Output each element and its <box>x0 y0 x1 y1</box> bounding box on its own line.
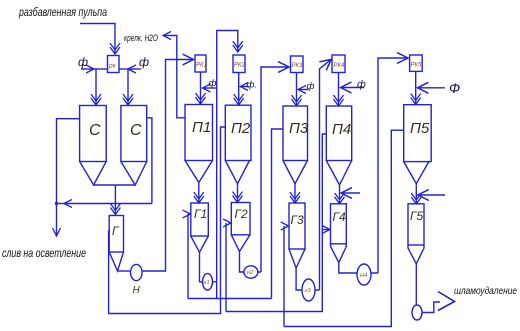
funnel under P3 <box>283 161 308 184</box>
wire: phi inlet at P5 drop <box>418 87 445 89</box>
svg-text:Г5: Г5 <box>410 209 424 223</box>
svg-text:ф: ф <box>357 79 366 91</box>
funnel under G1 <box>191 236 209 252</box>
wire: pump N1 output riser and bridge to RK2 <box>213 31 238 299</box>
thickener G <box>109 216 123 253</box>
pump N2 <box>244 266 258 278</box>
wire: P5 underflow to G5 <box>415 184 417 203</box>
wire: side inlet stub at P5 underflow <box>418 194 445 196</box>
hydrocyclone G5 <box>408 204 424 245</box>
svg-text:П5: П5 <box>410 120 430 137</box>
svg-text:Г4: Г4 <box>333 210 347 224</box>
funnel under P4 <box>326 161 351 186</box>
funnel under G3 <box>289 249 305 268</box>
pump N4 <box>357 264 371 285</box>
wire: G3 side inlet arrow <box>287 225 289 227</box>
svg-text:слив на осветление: слив на осветление <box>2 246 86 260</box>
wire: diluted pulp inlet lead to RK <box>80 24 115 54</box>
hydrocyclone G2 <box>231 203 250 235</box>
hydrocyclone G3 <box>289 203 305 249</box>
wire: G1 side inlet arrow <box>188 213 191 215</box>
wire: feed line right into RK with arrow <box>128 68 141 70</box>
svg-text:н2: н2 <box>247 270 253 276</box>
apparatus P5 <box>404 105 432 162</box>
svg-text:РК3: РК3 <box>292 63 304 69</box>
svg-text:Н4: Н4 <box>360 273 367 279</box>
apparatus P2 <box>225 105 251 160</box>
svg-text:Ф: Ф <box>449 80 460 96</box>
wire: G2 feed leg <box>225 223 227 312</box>
funnel under P2 <box>225 161 249 184</box>
wire: feed line left into RK with arrow <box>81 68 94 70</box>
apparatus P4 <box>326 106 351 161</box>
node: junction dot at drain corner <box>55 202 58 205</box>
wire: P3 underflow to G3 <box>294 184 296 202</box>
svg-text:н1: н1 <box>204 280 210 286</box>
pump N <box>131 264 143 280</box>
svg-text:С: С <box>130 122 142 139</box>
wire: phi inlet at P1 drop <box>203 87 217 89</box>
svg-text:Г3: Г3 <box>291 213 305 227</box>
wire: G1 underflow to pump N1 <box>200 252 203 281</box>
svg-text:С: С <box>89 122 101 139</box>
pump N1 <box>203 274 213 290</box>
svg-text:ф: ф <box>307 81 315 92</box>
wire: RK3 drop to P3 <box>296 73 298 106</box>
funnel under G5 <box>408 245 424 264</box>
tank C1 <box>80 106 107 162</box>
funnel under G2 <box>231 235 250 252</box>
regulator RK5 <box>410 55 423 71</box>
wire: G1 feed leg <box>187 214 189 299</box>
wire: pump N3 output riser and diagonal to RK4 <box>315 59 331 290</box>
wire: G2 underflow to pump N2 <box>240 252 244 273</box>
svg-text:ф: ф <box>139 55 149 69</box>
svg-text:Н: Н <box>133 285 141 296</box>
wire: side inlet stub at P4 underflow <box>341 192 360 194</box>
wire: P1 overflow up and out to strong water <box>171 36 185 118</box>
svg-text:РК1: РК1 <box>196 63 207 69</box>
wire: G5 underflow to sludge pump <box>415 264 417 305</box>
wire: RK2 drop to P2 <box>238 73 240 105</box>
regulator RK4 <box>332 55 345 73</box>
wire: P2 underflow to G2 <box>237 184 239 202</box>
svg-text:РК2: РК2 <box>234 63 246 69</box>
wire: bottom line L4 to P5 step <box>284 130 404 326</box>
pump sludge <box>412 305 422 320</box>
wire: G side line down to bottom then up to P2 inlet <box>109 127 226 314</box>
wire: sludge removal outlet arrow <box>422 302 440 313</box>
svg-text:разбавленная пульпа: разбавленная пульпа <box>18 7 107 19</box>
wire: G4 underflow to pump N4 <box>339 263 357 274</box>
wire: phi inlet at P4 drop <box>341 87 365 89</box>
svg-text:П1: П1 <box>192 119 211 136</box>
wire: funnel tips connector <box>94 184 136 186</box>
regulator RK3 <box>291 56 304 73</box>
wire: pump N4 output riser to RK5 <box>371 58 408 273</box>
wire: RK4 drop to P4 <box>338 73 340 106</box>
wire: P3 overflow step down to L1 <box>272 129 284 299</box>
funnel under P1 <box>185 161 213 183</box>
regulator RK1 <box>195 55 206 72</box>
wire: pump N2 output riser to RK3 <box>258 67 289 272</box>
wire: G underflow to pump N <box>118 270 131 272</box>
wire: RK1 drop to P1 <box>200 72 202 103</box>
wire: C underflow drop to G <box>114 185 116 214</box>
svg-text:П2: П2 <box>231 120 251 137</box>
funnel under C1 <box>80 162 107 186</box>
svg-text:рк: рк <box>108 63 117 70</box>
wire: G3 feed leg <box>283 226 285 327</box>
wire: G3 underflow to pump N3 <box>296 268 302 290</box>
wire: P4 underflow to G4 <box>339 185 341 203</box>
funnel under C2 <box>121 162 147 186</box>
svg-text:шламоудаление: шламоудаление <box>454 285 517 297</box>
svg-text:Г1: Г1 <box>194 207 207 221</box>
wire: pump N output riser to RK1 <box>142 60 193 272</box>
hydrocyclone G1 <box>191 203 209 236</box>
wire: RK5 drop to P5 <box>415 71 417 103</box>
wire: phi inlet at P3 drop <box>298 89 309 91</box>
svg-text:Г2: Г2 <box>235 207 249 221</box>
wire: drop to tank C right <box>127 69 129 104</box>
wire: overflow collector with left arrow <box>64 203 152 205</box>
apparatus P3 <box>283 106 308 161</box>
svg-text:РК4: РК4 <box>334 63 346 69</box>
wire: G2 side inlet arrow <box>229 222 232 224</box>
svg-text:П4: П4 <box>332 121 351 138</box>
svg-text:ф: ф <box>209 78 217 89</box>
svg-text:П3: П3 <box>289 120 309 137</box>
wire: P1 underflow to G1 <box>198 183 200 203</box>
wire: bottom line L3 to P4 step <box>226 134 326 312</box>
regulator RK2 <box>233 55 245 73</box>
tank C2 <box>121 106 147 162</box>
funnel under G <box>109 252 123 271</box>
wire: branch from P4 step into G4 <box>322 229 330 231</box>
funnel under P5 <box>404 162 429 184</box>
hydrocyclone G4 <box>331 204 347 244</box>
regulator RK <box>108 56 120 73</box>
svg-text:крепк. Н2О: крепк. Н2О <box>124 33 158 43</box>
svg-text:ф.: ф. <box>247 80 258 91</box>
svg-text:н3: н3 <box>305 288 312 294</box>
wire: C2 overflow down <box>147 118 152 204</box>
funnel under G4 <box>331 244 347 263</box>
svg-text:Г: Г <box>112 224 120 238</box>
wire: C1 overflow to drain <box>57 119 80 204</box>
svg-text:ф: ф <box>78 55 88 69</box>
wire: drop to tank C left <box>95 69 97 104</box>
wire: drain arrow down <box>56 204 58 237</box>
wire: phi inlet at P2 drop <box>240 86 249 88</box>
wire: bottom line L1 <box>188 298 272 300</box>
pump N3 <box>302 279 315 301</box>
svg-text:РК5: РК5 <box>411 63 423 69</box>
apparatus P1 <box>185 105 213 161</box>
